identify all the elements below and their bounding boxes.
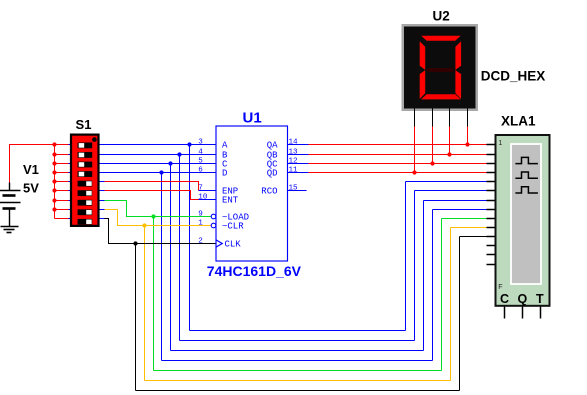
svg-text:7: 7 xyxy=(198,184,203,192)
svg-text:1: 1 xyxy=(498,140,502,147)
battery V1 xyxy=(0,162,39,227)
svg-text:1: 1 xyxy=(198,219,203,227)
svg-text:S1: S1 xyxy=(76,117,92,132)
wire red bus down S1 left pins xyxy=(55,145,69,219)
svg-text:Q: Q xyxy=(518,292,528,306)
svg-text:QD: QD xyxy=(267,169,278,179)
wire net ~LOAD: S1 row7 to U1 pin 9 and XLA1 xyxy=(105,201,487,371)
U1 pin names xyxy=(222,141,278,250)
wire V1+ to S1 red bus xyxy=(10,145,55,183)
IC U1 74HC161D_6V counter xyxy=(199,126,309,261)
wire net B: S1 to U1 pin, drop to bottom loop, to XLA1 xyxy=(105,152,487,340)
svg-text:DCD_HEX: DCD_HEX xyxy=(481,69,546,84)
svg-text:F: F xyxy=(498,284,502,291)
wire net D: S1 to U1 pin, drop to bottom loop, to XLA1 xyxy=(105,170,487,360)
wire net C: S1 to U1 pin, drop to bottom loop, to XLA1 xyxy=(105,161,487,350)
svg-text:ENT: ENT xyxy=(222,196,239,206)
svg-text:QA: QA xyxy=(267,141,278,151)
svg-text:CLK: CLK xyxy=(225,240,242,250)
svg-text:4: 4 xyxy=(198,148,203,156)
seven-segment display U2 DCD_HEX xyxy=(402,9,546,127)
svg-text:5: 5 xyxy=(198,157,203,165)
wire net ENT: S1 row6 to U1 pin 10 xyxy=(105,191,199,200)
U1 pin numbers xyxy=(198,138,298,245)
wire net CLK: S1 row9 to U1 pin 2 and XLA1 xyxy=(105,219,487,391)
svg-text:11: 11 xyxy=(289,166,299,174)
svg-text:13: 13 xyxy=(289,148,299,156)
svg-text:T: T xyxy=(536,292,544,306)
svg-text:C: C xyxy=(500,292,509,306)
svg-text:3: 3 xyxy=(198,138,203,146)
svg-text:9: 9 xyxy=(198,210,203,218)
svg-text:15: 15 xyxy=(289,184,299,192)
svg-text:D: D xyxy=(222,169,227,179)
wire net QC: U1 to U2 and XLA1 xyxy=(309,127,487,166)
wire net QB: U1 to U2 and XLA1 xyxy=(309,127,487,157)
svg-text:U2: U2 xyxy=(433,9,450,24)
svg-text:U1: U1 xyxy=(243,109,262,126)
svg-text:12: 12 xyxy=(289,157,299,165)
svg-text:2: 2 xyxy=(198,237,203,245)
svg-text:10: 10 xyxy=(198,193,208,201)
logic analyzer XLA1 xyxy=(487,114,550,319)
wire net ~CLR: S1 row8 to U1 pin 1 and XLA1 xyxy=(105,210,487,381)
wire net ENP: S1 row5 to U1 pin 7 xyxy=(105,182,199,191)
svg-text:RCO: RCO xyxy=(261,187,277,197)
svg-text:XLA1: XLA1 xyxy=(501,114,536,129)
junction dots on red bus xyxy=(52,142,56,211)
wire net QD: U1 to U2 and XLA1 xyxy=(309,127,487,175)
svg-text:V1: V1 xyxy=(23,162,39,177)
svg-text:~CLR: ~CLR xyxy=(222,222,244,232)
svg-text:6: 6 xyxy=(198,166,203,174)
ground xyxy=(1,227,19,233)
DIP switch S1 xyxy=(69,117,105,226)
svg-text:5V: 5V xyxy=(23,181,39,196)
svg-text:14: 14 xyxy=(289,138,299,146)
svg-text:A: A xyxy=(222,141,228,151)
svg-text:74HC161D_6V: 74HC161D_6V xyxy=(207,263,302,279)
wire net QA: U1 to U2 and XLA1 xyxy=(309,127,487,147)
wire net A: S1 to U1 pin, drop to bottom loop, to XLA1 xyxy=(105,142,487,330)
